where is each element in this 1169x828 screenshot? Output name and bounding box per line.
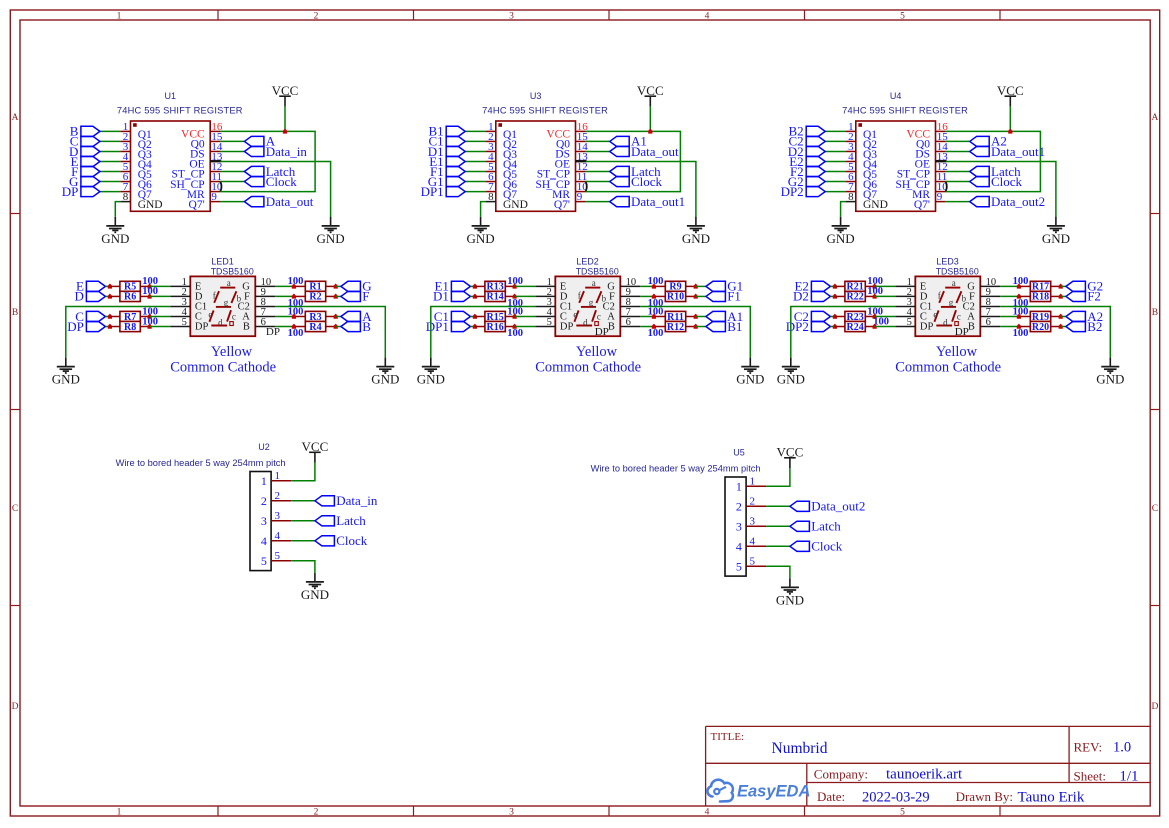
7-segment display LED2 [535, 256, 640, 336]
wire [1000, 295, 1019, 297]
net flag E2 [794, 279, 830, 294]
junction [652, 294, 656, 299]
svg-text:1.0: 1.0 [1113, 740, 1131, 756]
svg-text:LED2: LED2 [576, 256, 599, 266]
pin 5 [895, 326, 915, 328]
net flag D1 [428, 144, 465, 159]
svg-text:TDSB5160: TDSB5160 [936, 266, 979, 276]
net flag Latch [315, 513, 366, 528]
wire [586, 181, 610, 183]
svg-text:DP: DP [560, 321, 574, 332]
ground [827, 217, 855, 246]
svg-text:GND: GND [776, 592, 804, 607]
svg-text:1: 1 [275, 470, 281, 482]
junction [473, 294, 477, 299]
wire [1000, 326, 1019, 328]
wire [946, 140, 970, 142]
svg-text:DP: DP [920, 321, 934, 332]
svg-text:DP2: DP2 [781, 184, 804, 199]
pin 9 [620, 295, 640, 297]
wire [105, 285, 110, 287]
resistor R21 [835, 281, 875, 292]
wire [66, 306, 171, 357]
svg-text:TDSB5160: TDSB5160 [576, 266, 619, 276]
svg-text:F1: F1 [727, 289, 741, 304]
junction [108, 324, 112, 329]
svg-text:8: 8 [488, 191, 494, 203]
net flag A2 [970, 134, 1007, 149]
svg-text:GND: GND [138, 199, 163, 211]
shift register U1 [117, 91, 243, 211]
wire [640, 285, 654, 287]
svg-text:R16: R16 [486, 322, 503, 333]
svg-text:TDSB5160: TDSB5160 [211, 266, 254, 276]
net flag B2 [1066, 319, 1102, 334]
svg-text:Numbrid: Numbrid [772, 740, 828, 757]
wire [586, 161, 696, 217]
net flag Latch [790, 519, 841, 534]
pin 1 [746, 485, 766, 487]
net flag DP1 [426, 319, 471, 334]
wire [946, 181, 970, 183]
active-low bar pin 13 [936, 160, 947, 162]
svg-text:5: 5 [261, 554, 267, 568]
wire [766, 566, 790, 578]
power VCC [637, 83, 664, 107]
svg-text:6: 6 [626, 317, 631, 328]
pin 16 [936, 130, 946, 132]
pin 2 [535, 295, 555, 297]
wire [100, 191, 120, 193]
pin 14 [936, 150, 946, 152]
svg-text:TITLE:: TITLE: [711, 731, 745, 743]
arc mark pin 10 [586, 182, 587, 192]
svg-text:5: 5 [907, 317, 912, 328]
svg-text:GND: GND [52, 372, 80, 387]
pin 6 [846, 181, 856, 183]
net flag Latch [970, 164, 1021, 179]
wire [220, 150, 244, 152]
wire [830, 326, 835, 328]
junction [334, 324, 338, 329]
svg-text:Yellow: Yellow [576, 344, 618, 360]
pin 1 [535, 285, 555, 287]
pin 14 [576, 150, 586, 152]
junction [694, 294, 698, 299]
svg-text:DP: DP [195, 321, 209, 332]
svg-text:e: e [208, 309, 212, 319]
svg-text:4: 4 [275, 530, 281, 542]
resistor R10 [655, 291, 695, 302]
svg-text:D2: D2 [793, 289, 809, 304]
svg-text:GND: GND [371, 372, 399, 387]
wire [465, 171, 485, 173]
wire [100, 160, 120, 162]
wire [830, 315, 835, 317]
svg-text:2: 2 [275, 490, 281, 502]
junction [283, 129, 287, 134]
pin 4 [486, 160, 496, 162]
pin 2 [486, 140, 496, 142]
svg-text:1: 1 [261, 474, 267, 488]
pin 5 [271, 560, 291, 562]
svg-text:f: f [213, 290, 216, 300]
pin 3 [895, 305, 915, 307]
svg-text:Common Cathode: Common Cathode [535, 359, 641, 375]
svg-text:Data_out: Data_out [266, 194, 314, 209]
wire [291, 500, 315, 502]
net flag B1 [706, 319, 742, 334]
wire [696, 285, 706, 287]
wire [825, 130, 845, 132]
7-segment digit [933, 278, 966, 327]
svg-text:GND: GND [503, 199, 528, 211]
resistor R1 [295, 281, 335, 292]
svg-text:U5: U5 [733, 448, 745, 458]
resistor R16 [475, 321, 515, 332]
pin 15 [576, 140, 586, 142]
junction [694, 314, 698, 319]
net flag C2 [789, 134, 826, 149]
net flag G1 [706, 279, 743, 294]
pin 4 [895, 315, 915, 317]
svg-text:a: a [592, 278, 596, 288]
pin 12 [210, 171, 220, 173]
net flag D [75, 289, 106, 304]
junction [334, 294, 338, 299]
resistor R11 [655, 311, 695, 322]
net flag G2 [1066, 279, 1103, 294]
wire [275, 295, 294, 297]
pin 1 [846, 130, 856, 132]
svg-text:2: 2 [314, 12, 319, 22]
svg-text:R24: R24 [846, 322, 863, 333]
svg-text:Yellow: Yellow [936, 344, 978, 360]
svg-text:GND: GND [417, 372, 445, 387]
svg-text:d: d [583, 317, 588, 327]
wire [465, 160, 485, 162]
svg-text:1: 1 [117, 12, 122, 22]
wire [1000, 285, 1019, 287]
svg-text:100: 100 [507, 328, 523, 339]
svg-text:R6: R6 [124, 292, 136, 303]
wire [825, 171, 845, 173]
junction [873, 314, 877, 319]
svg-text:g: g [224, 298, 229, 308]
pin 2 [895, 295, 915, 297]
net flag Clock [315, 533, 368, 548]
svg-text:B: B [608, 321, 615, 332]
svg-text:c: c [957, 311, 961, 321]
wire [470, 295, 475, 297]
junction [1059, 284, 1063, 289]
svg-text:100: 100 [1013, 328, 1029, 339]
junction [473, 314, 477, 319]
pin 1 [486, 130, 496, 132]
7-segment display LED3 [895, 256, 1000, 336]
pin 8 [620, 305, 640, 307]
net flag C [70, 134, 100, 149]
net flag B [341, 319, 371, 334]
pin 10 [210, 191, 220, 193]
svg-text:5: 5 [750, 555, 756, 567]
ground [1042, 217, 1070, 246]
pin 4 [746, 545, 766, 547]
svg-text:c: c [232, 311, 236, 321]
junction [108, 284, 112, 289]
junction [1017, 294, 1021, 299]
wire [946, 171, 970, 173]
svg-text:GND: GND [467, 231, 495, 246]
svg-text:GND: GND [1042, 231, 1070, 246]
pin 7 [120, 191, 130, 193]
pin 5 [746, 565, 766, 567]
svg-text:100: 100 [648, 328, 664, 339]
pin 6 [120, 181, 130, 183]
svg-text:a: a [227, 278, 231, 288]
svg-text:3: 3 [736, 520, 742, 534]
header U5 [591, 448, 767, 576]
svg-text:9: 9 [211, 191, 217, 203]
svg-text:b: b [602, 294, 607, 304]
pin 7 [486, 191, 496, 193]
svg-text:GND: GND [736, 372, 764, 387]
svg-text:R20: R20 [1032, 322, 1049, 333]
svg-text:Wire to bored header 5 way 254: Wire to bored header 5 way 254mm pitch [116, 458, 286, 468]
net flag F1 [706, 289, 741, 304]
resistor R2 [295, 291, 335, 302]
wire [1061, 326, 1066, 328]
junction [873, 294, 877, 299]
svg-text:R18: R18 [1032, 292, 1049, 303]
wire [1061, 295, 1066, 297]
junction [1017, 314, 1021, 319]
pin 8 [980, 305, 1000, 307]
wire [220, 161, 330, 217]
junction [1059, 324, 1063, 329]
pin 8 [255, 305, 275, 307]
net flag DP1 [421, 184, 466, 199]
wire [150, 295, 171, 297]
pin 15 [210, 140, 220, 142]
pin 9 [255, 295, 275, 297]
svg-text:Latch: Latch [336, 513, 366, 528]
wire [825, 181, 845, 183]
svg-text:R4: R4 [309, 322, 321, 333]
7-segment display LED1 [170, 256, 275, 336]
pin 2 [271, 500, 291, 502]
svg-text:GND: GND [1096, 372, 1124, 387]
pin 9 [576, 201, 586, 203]
junction [873, 324, 877, 329]
pin 8 [846, 201, 856, 203]
svg-text:Date:: Date: [817, 789, 845, 804]
wire [946, 161, 1056, 217]
svg-text:3: 3 [750, 515, 756, 527]
wire [586, 201, 610, 203]
wire [336, 285, 341, 287]
junction [1008, 129, 1012, 134]
svg-text:f: f [578, 290, 581, 300]
wire [105, 315, 110, 317]
wire [515, 295, 536, 297]
resistor R7 [110, 311, 150, 322]
resistor R3 [295, 311, 335, 322]
junction [108, 294, 112, 299]
resistor R22 [835, 291, 875, 302]
pin 2 [846, 140, 856, 142]
wire [766, 545, 790, 547]
svg-text:GND: GND [863, 199, 888, 211]
svg-text:GND: GND [777, 372, 805, 387]
resistor R12 [655, 321, 695, 332]
pin 10 [620, 285, 640, 287]
svg-text:c: c [597, 311, 601, 321]
wire [275, 306, 385, 357]
svg-text:B: B [968, 321, 975, 332]
pin 16 [210, 130, 220, 132]
svg-text:Q7': Q7' [189, 199, 205, 211]
svg-text:3: 3 [509, 12, 514, 22]
net flag Data_out1 [610, 194, 685, 209]
svg-text:REV:: REV: [1074, 740, 1103, 755]
wire [150, 326, 171, 328]
wire [105, 295, 110, 297]
svg-text:2: 2 [314, 808, 319, 818]
svg-text:D: D [75, 289, 84, 304]
title block [706, 726, 1150, 806]
wire [470, 315, 475, 317]
net flag F2 [790, 164, 825, 179]
wire [275, 326, 294, 328]
pin 6 [486, 181, 496, 183]
svg-text:B: B [362, 319, 371, 334]
wire [115, 202, 120, 217]
pin 2 [120, 140, 130, 142]
wire [586, 131, 681, 191]
wire [220, 171, 244, 173]
svg-text:d: d [943, 317, 948, 327]
svg-text:2: 2 [750, 495, 756, 507]
pin 6 [620, 326, 640, 328]
svg-text:R14: R14 [486, 292, 503, 303]
wire [515, 285, 536, 287]
pin 3 [846, 150, 856, 152]
net flag A [244, 134, 275, 149]
7-segment digit [573, 278, 606, 327]
wire [275, 285, 294, 287]
pin 7 [846, 191, 856, 193]
svg-text:A: A [12, 113, 19, 123]
pin 10 [936, 191, 946, 193]
active-low bar pin 13 [210, 160, 221, 162]
wire [875, 326, 896, 328]
svg-text:g: g [949, 298, 954, 308]
wire [830, 295, 835, 297]
wire [830, 285, 835, 287]
wire [100, 181, 120, 183]
pin 1 [170, 285, 190, 287]
svg-text:R2: R2 [309, 292, 321, 303]
svg-text:100: 100 [288, 306, 304, 317]
svg-text:100: 100 [288, 328, 304, 339]
wire [100, 150, 120, 152]
net flag DP [67, 319, 105, 334]
wire [1000, 315, 1019, 317]
wire [465, 150, 485, 152]
net flag E1 [429, 154, 465, 169]
wire [291, 540, 315, 542]
wire [696, 326, 706, 328]
pin 11 [936, 181, 946, 183]
net flag Data_in [315, 493, 378, 508]
power VCC [302, 439, 329, 463]
junction [833, 294, 837, 299]
pin 13 [936, 160, 946, 162]
ground [101, 217, 129, 246]
pin 10 [980, 285, 1000, 287]
svg-text:6: 6 [986, 317, 991, 328]
svg-text:F: F [362, 289, 369, 304]
resistor R18 [1020, 291, 1060, 302]
power VCC [272, 83, 299, 107]
junction [148, 314, 152, 319]
wire [766, 468, 790, 486]
resistor R9 [655, 281, 695, 292]
pin 3 [120, 150, 130, 152]
svg-text:DP: DP [595, 326, 609, 338]
wire [284, 107, 286, 132]
wire [640, 306, 750, 357]
resistor R20 [1020, 321, 1060, 332]
svg-text:GND: GND [827, 231, 855, 246]
junction [148, 284, 152, 289]
svg-text:F2: F2 [1087, 289, 1101, 304]
net flag B [70, 124, 100, 139]
net flag C1 [429, 134, 466, 149]
wire [640, 326, 654, 328]
net flag Data_out1 [970, 144, 1045, 159]
junction [292, 314, 296, 319]
net flag Data_out [244, 194, 313, 209]
pin 5 [170, 326, 190, 328]
net flag DP2 [781, 184, 826, 199]
svg-text:4: 4 [261, 534, 267, 548]
pin 14 [210, 150, 220, 152]
svg-text:DP2: DP2 [786, 319, 809, 334]
pin 10 [255, 285, 275, 287]
net flag Latch [610, 164, 661, 179]
net flag Data_out2 [790, 499, 865, 514]
svg-text:100: 100 [648, 306, 664, 317]
svg-text:R10: R10 [667, 292, 684, 303]
net flag Clock [244, 174, 297, 189]
resistor R17 [1020, 281, 1060, 292]
wire [470, 285, 475, 287]
pin 5 [486, 171, 496, 173]
svg-text:D: D [12, 702, 19, 712]
active-low bar pin 13 [576, 160, 587, 162]
junction [292, 284, 296, 289]
svg-text:Clock: Clock [631, 174, 663, 189]
pin 9 [210, 201, 220, 203]
pin 13 [210, 160, 220, 162]
svg-text:b: b [237, 294, 242, 304]
svg-text:5: 5 [547, 317, 552, 328]
pin 4 [120, 160, 130, 162]
svg-text:1/1: 1/1 [1119, 769, 1138, 785]
wire [336, 326, 341, 328]
